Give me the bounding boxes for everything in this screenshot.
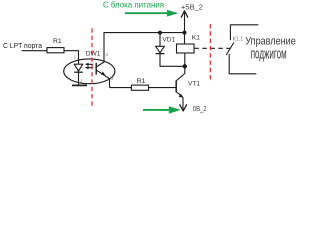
svg-text:С LPT порта: С LPT порта bbox=[3, 41, 42, 50]
svg-text:K1: K1 bbox=[192, 35, 200, 42]
svg-text:R1: R1 bbox=[137, 78, 146, 85]
svg-text:С блока питания: С блока питания bbox=[103, 0, 164, 9]
svg-text:0В_2: 0В_2 bbox=[193, 104, 207, 113]
svg-text:4: 4 bbox=[105, 52, 108, 57]
svg-text:DW1: DW1 bbox=[86, 51, 101, 58]
svg-text:VD1: VD1 bbox=[162, 37, 175, 44]
svg-text:K1.1: K1.1 bbox=[233, 37, 244, 43]
svg-text:VT1: VT1 bbox=[188, 80, 200, 87]
svg-text:1: 1 bbox=[74, 54, 77, 59]
svg-text:2: 2 bbox=[80, 79, 83, 84]
svg-text:поджигом: поджигом bbox=[251, 45, 287, 62]
svg-text:+5В_2: +5В_2 bbox=[181, 3, 203, 12]
svg-text:3: 3 bbox=[111, 76, 114, 81]
svg-text:R1: R1 bbox=[53, 38, 62, 45]
